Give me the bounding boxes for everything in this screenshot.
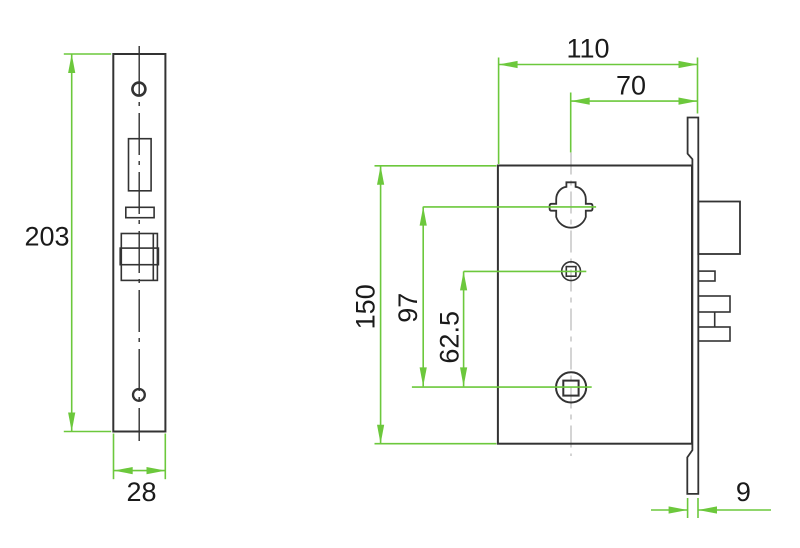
centerline lock case [570,153,572,457]
dimension 62.5 extension top [464,270,587,272]
svg-text:70: 70 [616,71,646,101]
dimension 110 extension right [697,58,699,114]
dimension 110 extension left [498,58,500,165]
lock case body [498,166,692,444]
dimension 9 extension left [687,498,689,518]
spindle hole circle [562,262,581,281]
dimension 150 line [380,166,382,444]
forend strip [687,118,698,494]
dimension 9 extension right [697,498,699,518]
dimension 62.5 line [463,271,465,386]
top screw hole [132,83,145,96]
dimension 110 line [499,64,698,66]
bottom screw hole [133,389,145,401]
dimension 9 line left [651,509,688,511]
spindle hole square [566,267,576,277]
dimension 28 extension right [164,434,166,480]
deadbolt outer [121,234,157,281]
deadbolt connector [714,312,716,327]
auxiliary cutout [126,207,154,217]
dimension 70 extension left [570,93,572,153]
dimension 28 extension left [113,434,115,480]
svg-text:97: 97 [393,293,423,323]
dimension 150 extension top [375,165,497,167]
dimension 97 extension bottom [412,386,592,388]
svg-text:9: 9 [736,477,751,507]
guard bolt [698,271,715,281]
svg-text:62.5: 62.5 [435,311,465,364]
centerline overlay inside plate [138,54,140,432]
deadbolt inner line [152,234,154,281]
svg-text:110: 110 [566,34,609,64]
deadbolt upper bar [698,296,730,312]
dimension 9 line right [698,509,771,511]
dimension 97 extension top [423,206,596,208]
latch cutout [129,139,152,191]
dimension 203 extension top [64,53,111,55]
lower square hole square [563,381,578,396]
svg-text:150: 150 [351,284,381,329]
deadbolt lower bar [698,327,730,341]
dimension 203 extension bottom [64,431,111,433]
latch bolt side [698,202,740,255]
dimension 97 line [422,207,424,387]
dimension 70 line [571,100,698,102]
faceplate outline [113,54,165,432]
cylinder hole [550,182,593,227]
centerline left plate [138,46,140,441]
lower square hole circle [556,372,586,402]
svg-text:28: 28 [126,477,156,507]
dimension 150 extension bottom [375,443,497,445]
dimension 203 line [71,54,73,432]
dimension 28 line [114,470,166,472]
deadbolt mid band [120,248,158,265]
svg-text:203: 203 [24,222,69,252]
